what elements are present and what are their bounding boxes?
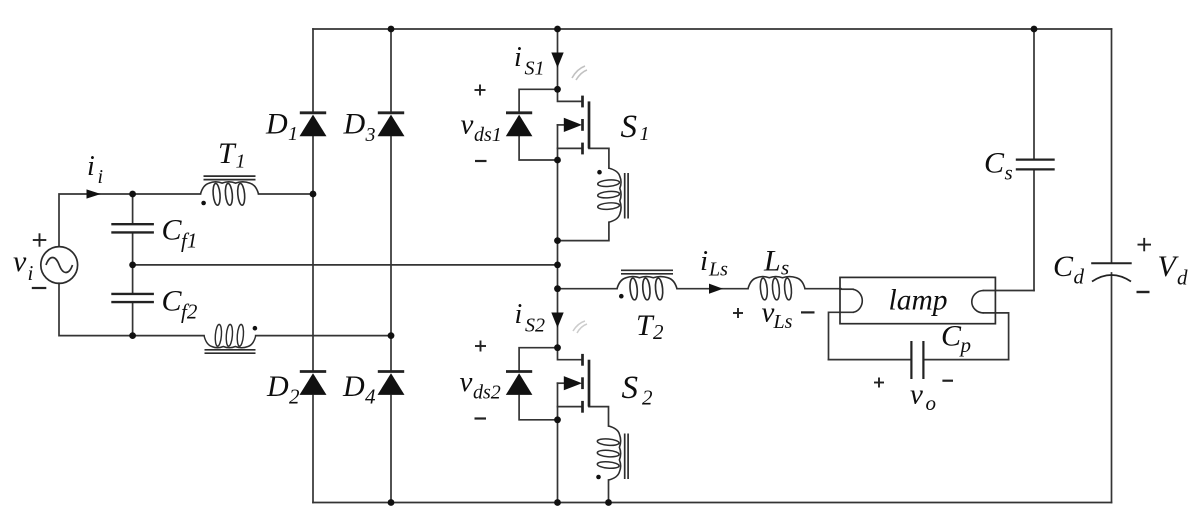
wire filter cap branch upper — [132, 194, 134, 224]
inductor T2 winding — [617, 277, 677, 301]
current arrow i_Ls — [709, 284, 723, 294]
wire bottom rail — [313, 502, 1112, 504]
wire S2 winding to bottom rail — [608, 480, 610, 503]
wire S1 gate lead — [589, 148, 609, 168]
wire S2 source to bottom rail — [557, 420, 559, 503]
svg-text:v: v — [13, 245, 27, 278]
wire AC source bottom lead — [59, 283, 204, 335]
scan smudge near i_S2 — [573, 321, 587, 333]
svg-text:f2: f2 — [181, 300, 198, 324]
wire AC top to bridge — [259, 193, 314, 195]
T1 lower core — [205, 350, 256, 353]
S2 winding phase dot — [596, 475, 601, 480]
junction node: AC bottom at D4 leg — [388, 332, 395, 339]
svg-text:3: 3 — [365, 124, 376, 146]
lamp box — [840, 277, 995, 323]
capacitor Cs — [1016, 160, 1055, 170]
mosfet S2 body arrow — [564, 376, 582, 390]
svg-text:lamp: lamp — [889, 285, 948, 317]
svg-text:i: i — [87, 151, 95, 182]
label Vd minus — [1137, 291, 1150, 293]
svg-text:d: d — [1074, 265, 1085, 289]
svg-text:C: C — [941, 320, 962, 353]
body diode of S1 (vds1) — [506, 113, 533, 136]
junction node: top rail / Cs — [1031, 26, 1038, 33]
svg-text:C: C — [1053, 250, 1074, 283]
T1 upper core — [204, 176, 256, 180]
svg-text:C: C — [162, 214, 183, 247]
svg-text:S: S — [621, 109, 638, 145]
wire T2 branch — [558, 288, 618, 290]
S1 winding core — [625, 173, 628, 219]
T1 lower phase dot — [253, 326, 258, 331]
label vi plus — [33, 233, 47, 246]
wire Cp bottom right — [923, 359, 1008, 361]
junction node: bottom rail / D4 leg — [388, 499, 395, 506]
junction node: AC top / Cf1 — [129, 191, 136, 198]
wire Cs branch upper — [1033, 29, 1035, 160]
svg-text:D: D — [342, 370, 365, 403]
wire right bridge leg (D3/D4 column) — [390, 29, 392, 112]
wire AC source top lead — [59, 194, 201, 247]
wire S1 drain stub — [558, 89, 582, 101]
lamp left electrode — [853, 289, 862, 312]
svg-text:2: 2 — [653, 320, 664, 344]
svg-text:S1: S1 — [525, 58, 545, 80]
junction node: top rail / D3 leg — [388, 26, 395, 33]
wire S1 body-source line — [557, 125, 559, 160]
S2 winding core — [625, 434, 628, 480]
label vo plus — [874, 378, 884, 388]
wire vds1 branch — [519, 89, 557, 112]
svg-text:L: L — [763, 245, 781, 278]
wire below Cf2 — [132, 302, 134, 335]
junction node: top rail / S1 drain — [554, 26, 561, 33]
svg-text:S: S — [622, 370, 639, 406]
body diode of S2 (vds2) — [506, 372, 533, 395]
svg-text:f1: f1 — [181, 229, 197, 253]
wire left bridge leg (D1/D2 column) — [312, 29, 314, 112]
svg-text:i: i — [514, 42, 522, 73]
capacitor Cf1 — [111, 224, 154, 232]
S1 winding phase dot — [597, 170, 602, 175]
svg-text:v: v — [910, 379, 923, 411]
svg-text:D: D — [343, 108, 366, 141]
svg-text:Ls: Ls — [773, 311, 793, 333]
svg-text:4: 4 — [365, 385, 376, 409]
wire AC bottom to bridge — [256, 335, 391, 337]
svg-text:i: i — [700, 245, 708, 277]
diode D4 — [378, 372, 405, 395]
svg-text:D: D — [266, 370, 289, 403]
wire Cs branch lower — [1033, 169, 1035, 290]
lamp right electrode bottom lead — [984, 313, 1009, 360]
current arrow i_S1 — [551, 53, 563, 68]
wire S1 body arrow lead — [558, 124, 567, 126]
label vds2 plus — [475, 341, 486, 352]
scan smudge near i_S1 — [572, 66, 587, 80]
svg-text:1: 1 — [288, 123, 298, 145]
svg-text:s: s — [781, 256, 789, 280]
mosfet S2 contacts and gate bar — [583, 354, 590, 413]
svg-text:s: s — [1005, 161, 1013, 185]
wire S2 drain stub — [558, 348, 582, 360]
wire top rail — [313, 28, 1112, 30]
svg-text:v: v — [461, 109, 474, 141]
svg-text:o: o — [926, 391, 937, 415]
wire vds2 branch — [519, 348, 557, 371]
svg-text:2: 2 — [289, 385, 300, 409]
label vds1 plus — [475, 85, 486, 96]
wire T2 to Ls — [677, 288, 748, 290]
junction node: AC bottom / Cf2 — [129, 332, 136, 339]
svg-text:1: 1 — [640, 123, 650, 145]
label vds1 minus — [475, 160, 487, 162]
wire S1 drain from top rail — [557, 29, 559, 89]
lamp left electrode top lead — [840, 288, 853, 290]
svg-text:T: T — [218, 137, 237, 170]
wire S1 winding return — [558, 222, 609, 240]
T2 phase dot — [619, 294, 624, 299]
wire S1 source lead — [558, 147, 582, 149]
svg-text:Ls: Ls — [708, 259, 728, 281]
svg-text:d: d — [1177, 266, 1188, 290]
wire S2 body-source line — [557, 383, 559, 420]
label vi minus — [32, 287, 47, 289]
wire S2 body arrow lead — [558, 382, 567, 384]
current arrow i_S2 — [551, 313, 563, 328]
wire S2 gate lead — [589, 407, 609, 426]
label Vd plus — [1138, 238, 1152, 251]
T1 upper phase dot — [201, 201, 206, 206]
svg-text:v: v — [460, 366, 473, 398]
junction node: bottom rail / S2 winding — [605, 499, 612, 506]
wire middle rail — [133, 264, 558, 266]
label vLs plus — [733, 308, 743, 318]
diode D2 — [300, 372, 327, 395]
wire right rail lower — [1111, 273, 1113, 503]
inductor T1 upper winding — [201, 182, 259, 206]
svg-text:i: i — [28, 261, 34, 285]
lamp right electrode — [972, 291, 984, 313]
junction node: AC top at D1 leg — [310, 191, 317, 198]
diode D3 — [378, 113, 405, 136]
svg-text:2: 2 — [642, 386, 653, 410]
capacitor Cd (polarized) — [1091, 263, 1132, 281]
wire Cp bottom left — [829, 359, 912, 361]
svg-text:C: C — [984, 147, 1005, 180]
junction node: Cf1 / Cf2 midpoint — [129, 262, 136, 269]
AC source vi — [41, 247, 78, 284]
label vds2 minus — [475, 417, 487, 419]
inductor Ls — [748, 277, 805, 301]
capacitor Cp — [911, 341, 923, 379]
junction node: S1 drain — [554, 86, 561, 93]
svg-text:1: 1 — [236, 151, 246, 173]
wire between Cf1 and Cf2 — [132, 233, 134, 294]
wire S2 source lead — [558, 406, 582, 408]
svg-text:ds1: ds1 — [474, 124, 502, 146]
diode D1 — [300, 113, 327, 136]
svg-text:D: D — [265, 108, 288, 141]
wire Ls to lamp — [805, 288, 841, 290]
svg-text:i: i — [98, 166, 104, 188]
lamp right electrode top lead — [984, 290, 1035, 292]
junction node: S2 source — [554, 416, 561, 423]
wire midpoint line — [557, 160, 559, 289]
svg-text:C: C — [162, 285, 183, 318]
svg-text:S2: S2 — [525, 315, 545, 337]
label vLs minus — [801, 311, 815, 313]
lamp left electrode bottom lead — [829, 312, 853, 359]
svg-text:i: i — [515, 299, 523, 330]
junction node: bottom rail / S2 source — [554, 499, 561, 506]
wire midpoint to S2 drain — [557, 289, 559, 348]
current arrow i_i — [87, 189, 101, 198]
capacitor Cf2 — [111, 294, 154, 302]
S1 gate winding — [597, 168, 621, 222]
label vo minus — [942, 380, 953, 382]
junction node: S1 source — [554, 157, 561, 164]
T2 core — [621, 270, 673, 274]
inductor T1 lower winding — [204, 324, 256, 348]
svg-text:p: p — [959, 333, 972, 357]
junction node: middle rail tap — [554, 262, 561, 269]
junction node: S2 drain — [554, 344, 561, 351]
S2 gate winding — [597, 426, 621, 480]
mosfet S1 body arrow — [564, 118, 582, 132]
junction node: S1 winding return — [554, 237, 561, 244]
wire right rail upper — [1111, 29, 1113, 263]
mosfet S1 contacts and gate bar — [583, 96, 590, 155]
svg-text:ds2: ds2 — [473, 382, 501, 404]
junction node: half-bridge midpoint / T2 — [554, 285, 561, 292]
